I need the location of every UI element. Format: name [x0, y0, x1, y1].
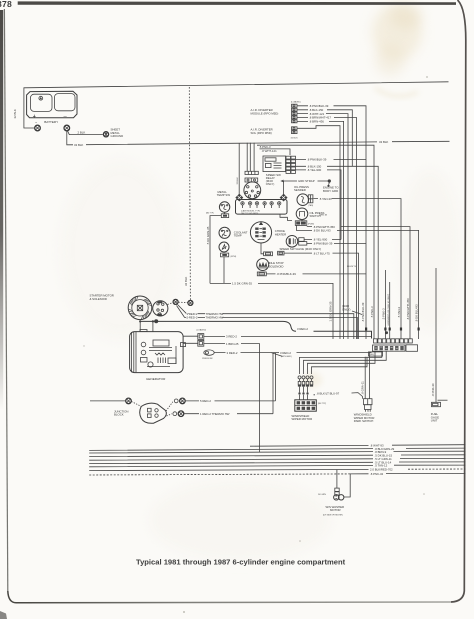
svg-text:.5 TAN-3: .5 TAN-3	[397, 306, 401, 318]
svg-text:.5 TAN-31: .5 TAN-31	[319, 197, 332, 201]
press sw oval	[202, 350, 214, 360]
engine block box	[236, 200, 328, 221]
starter solenoid	[153, 301, 168, 316]
svg-text:& SOLENOID: & SOLENOID	[90, 297, 107, 301]
svg-text:SENDER: SENDER	[294, 188, 306, 192]
lt blu connector	[278, 251, 284, 255]
svg-text:2 RED-2: 2 RED-2	[187, 316, 198, 320]
bus line .5 TAN-12	[89, 465, 465, 467]
svg-text:.8 PNK/BLK-39: .8 PNK/BLK-39	[307, 158, 327, 162]
svg-text:1 BRN-25: 1 BRN-25	[226, 342, 239, 346]
washer motor drop wires	[337, 470, 350, 497]
svg-text:SPEED SW VALVE (M4O ONLY): SPEED SW VALVE (M4O ONLY)	[280, 247, 322, 251]
junction terminals right upper + wire 5 RED-2	[174, 398, 275, 404]
svg-text:(M4 TYP): (M4 TYP)	[206, 212, 214, 214]
stain top-right	[372, 3, 422, 96]
thermo wires 1 RED-2 / 2 RED-2	[178, 305, 354, 340]
wire .8 DK BLU-93	[296, 225, 418, 339]
svg-text:(TAN): (TAN)	[309, 204, 314, 207]
bus line 2.0 BLK/RED-702 dashed	[89, 469, 368, 470]
main harness bus lines	[89, 444, 465, 476]
svg-text:ONLY): ONLY)	[342, 307, 351, 311]
svg-text:PARK SWITCH: PARK SWITCH	[354, 419, 374, 423]
generator output connectors	[181, 328, 207, 346]
washer motor	[323, 495, 344, 517]
svg-text:HEATER: HEATER	[275, 232, 286, 236]
metal temp sw	[217, 190, 231, 218]
wire gen 1 BRN-25	[204, 344, 260, 453]
svg-text:MOTOR: MOTOR	[330, 508, 341, 512]
top scan bar	[18, 1, 456, 5]
speed sw valve	[280, 236, 322, 251]
battery positive cable (to top long wire)	[24, 82, 449, 128]
wire .5 DK GRN-35	[210, 216, 221, 284]
distributor connector	[245, 178, 258, 182]
wire valve .8 YEL-900	[304, 239, 341, 241]
choke heater lead + inline box	[261, 243, 273, 256]
svg-text:.8 DK BLU-93: .8 DK BLU-93	[415, 304, 419, 322]
svg-text:BLOCK: BLOCK	[114, 413, 124, 417]
wiper park switch connector	[354, 399, 375, 423]
svg-text:DK GRN: DK GRN	[318, 494, 326, 496]
battery B1	[27, 91, 77, 124]
wire .8 PNK/BLK-39 (module pin1)	[297, 106, 366, 339]
svg-text:.8 PNK/BLK-39: .8 PNK/BLK-39	[277, 272, 297, 276]
svg-text:(LH SIDE OF ENG RH): (LH SIDE OF ENG RH)	[323, 515, 343, 517]
wire relay .8 YEL-900	[296, 170, 342, 240]
svg-text:.8 PNK-30: .8 PNK-30	[431, 383, 435, 397]
svg-text:(LOADED): (LOADED)	[291, 101, 301, 104]
bus line .5 DK BLU-15	[89, 455, 465, 457]
paper mottling	[60, 160, 460, 560]
generator leads	[140, 321, 153, 331]
svg-text:.8 GRA-11: .8 GRA-11	[361, 381, 365, 395]
svg-text:SOLENOID: SOLENOID	[269, 264, 284, 268]
wire 2 BLK to sheet metal ground	[68, 131, 103, 135]
wire dashed 32 BLK drop to starter	[189, 87, 190, 301]
junction block	[114, 402, 173, 424]
svg-text:GENERATOR: GENERATOR	[146, 377, 166, 381]
svg-text:.5 PNK-3: .5 PNK-3	[370, 306, 374, 318]
svg-text:1.5 DK GRN-35: 1.5 DK GRN-35	[232, 282, 252, 286]
frame bottom border	[8, 591, 451, 603]
svg-text:(W/ CYL HD GRD): (W/ CYL HD GRD)	[241, 213, 259, 215]
speed sw relay U1	[263, 156, 286, 186]
svg-text:3 RED-2: 3 RED-2	[297, 327, 308, 331]
svg-text:(M4): (M4)	[370, 354, 374, 356]
svg-text:THERMO HW: THERMO HW	[206, 316, 224, 320]
oil press switch	[296, 208, 324, 220]
svg-text:.8 YEL-900: .8 YEL-900	[307, 168, 322, 172]
bulkhead connector bank	[365, 328, 420, 357]
wire .8 WHT-121 to relay	[260, 149, 291, 155]
svg-text:.8 PNK/WHT-350: .8 PNK/WHT-350	[406, 298, 410, 320]
heavy cable 3 RED-2	[140, 321, 371, 338]
idle sol connector + wire .8 PNK/BLK-39	[257, 272, 366, 276]
svg-text:BLK/W 74: BLK/W 74	[347, 266, 357, 268]
wire valve .8 PNK/BLK-39	[307, 243, 366, 245]
washer motor connector	[318, 488, 339, 496]
junction block wire from left	[90, 400, 126, 402]
svg-text:(MTH): (MTH)	[231, 256, 237, 258]
frame right border	[451, 0, 466, 602]
svg-text:Typical 1981 through 1987 6-cy: Typical 1981 through 1987 6-cylinder eng…	[136, 557, 346, 566]
svg-text:(M4 TYP): (M4 TYP)	[318, 403, 326, 405]
wire .8 BRN-436 (module pin5)	[297, 121, 344, 339]
svg-text:WIPER MOTOR: WIPER MOTOR	[292, 417, 313, 421]
wire 32 BLK main bus	[67, 131, 450, 145]
svg-text:.5 PNK-3: .5 PNK-3	[382, 308, 386, 320]
coolant temp sw	[219, 227, 248, 238]
generator	[130, 330, 184, 382]
choke heater	[250, 222, 286, 243]
svg-text:32 BLK: 32 BLK	[184, 277, 188, 286]
svg-text:2 BLK: 2 BLK	[78, 131, 86, 135]
park switch verticals	[365, 352, 369, 399]
fusible link box	[295, 220, 314, 226]
distributor connector row	[237, 171, 258, 184]
wire .8 LT BLU-75	[284, 253, 359, 339]
svg-text:ONLY): ONLY)	[266, 182, 275, 186]
svg-text:.8 PNK-34: .8 PNK-34	[370, 472, 384, 476]
battery right terminal	[64, 125, 70, 131]
svg-text:PRESS SW: PRESS SW	[202, 358, 214, 360]
wire branch to junction label	[271, 353, 282, 357]
engine bolt left	[235, 194, 243, 202]
left scan bar	[0, 10, 3, 410]
svg-text:3 RED-2: 3 RED-2	[280, 351, 291, 355]
svg-text:3 RED-2: 3 RED-2	[227, 351, 238, 355]
engine bolt right	[280, 181, 288, 202]
svg-text:1.5 DK GRN-35: 1.5 DK GRN-35	[329, 301, 333, 321]
svg-text:378: 378	[0, 0, 12, 9]
windshield wiper motor connector stack	[292, 376, 327, 421]
wire sol to bus	[297, 126, 340, 339]
junction feed verticals	[273, 353, 276, 414]
bus line .8 BLK/GRN-29	[89, 448, 465, 450]
svg-text:32 BLK: 32 BLK	[13, 109, 17, 118]
bus line .8 PNK-34	[89, 474, 350, 475]
svg-text:.8 DK BLU-93: .8 DK BLU-93	[313, 229, 331, 233]
svg-text:GROUND: GROUND	[111, 134, 124, 138]
wire .8 BLK/LT BLU-97	[314, 393, 363, 399]
svg-text:TEMP: TEMP	[234, 234, 242, 238]
idle stop solenoid	[257, 259, 284, 271]
wire relay .8 BLK-150	[296, 166, 379, 339]
svg-text:(LOADED): (LOADED)	[197, 328, 207, 331]
relay connector pins	[286, 156, 296, 173]
bottom-left scan mark	[0, 611, 7, 619]
distributor	[244, 182, 261, 199]
stain small mid	[302, 372, 322, 388]
frame left border	[4, 9, 7, 591]
wire .8 WHT-121 (module pin3)	[297, 114, 348, 339]
wire gen 3 RED-2	[204, 335, 372, 337]
bus line .5 LT BLU-14	[89, 462, 465, 464]
starter B+ terminal dot	[154, 319, 158, 323]
svg-text:.8 LT BLU-75: .8 LT BLU-75	[313, 251, 330, 255]
svg-text:.8 PNK/BLK-39: .8 PNK/BLK-39	[313, 242, 333, 246]
oil press sender	[294, 185, 314, 207]
svg-text:(WITH M4O): (WITH M4O)	[281, 356, 292, 358]
junction terminals right lower + wire 1 RED-2 thermo	[173, 411, 273, 417]
svg-text:.8 PNK/BLK-39: .8 PNK/BLK-39	[361, 302, 365, 322]
svg-text:MODULE (RPO M5D): MODULE (RPO M5D)	[251, 112, 279, 116]
battery left terminal	[35, 125, 41, 131]
junction block terminal left	[126, 398, 132, 404]
A.I.R. diverter sol connector	[251, 127, 299, 140]
wiper harness from bank	[300, 351, 382, 374]
bus line .8 WHT-93	[250, 445, 466, 447]
svg-text:BATTERY: BATTERY	[44, 120, 58, 124]
svg-text:.8 BRN/WHT-415 (1985 1/2 ONLY): .8 BRN/WHT-415 (1985 1/2 ONLY)	[388, 294, 390, 326]
distributor feed wires	[239, 143, 254, 195]
starter motor	[128, 296, 152, 320]
bus line .8 BRN-9	[89, 451, 465, 453]
wire .8 PNK/WHT-350	[307, 227, 410, 339]
wire 1.5 DK GRN-35	[210, 257, 333, 339]
svg-text:1 RED-2 THERMO HW: 1 RED-2 THERMO HW	[200, 412, 230, 416]
wire relay .8 PNK/BLK-39	[296, 158, 367, 160]
svg-text:.8 WHT-121: .8 WHT-121	[262, 149, 278, 153]
fuel gauge feed	[435, 268, 437, 402]
svg-text:.5 DK GRN-35: .5 DK GRN-35	[206, 226, 210, 245]
bus line .5 LT GRN-11	[89, 458, 465, 460]
svg-text:.8 BRN-436: .8 BRN-436	[309, 120, 324, 124]
wire .8 BLK-150 (module pin2)	[297, 110, 352, 167]
svg-text:BODY GRD: BODY GRD	[323, 189, 338, 193]
svg-text:5 RED-2: 5 RED-2	[200, 399, 211, 403]
svg-text:GRD STRAP: GRD STRAP	[298, 179, 315, 183]
temp sender lower	[219, 242, 236, 258]
sheet metal ground G1	[103, 128, 123, 138]
svg-text:3 RED-2: 3 RED-2	[226, 335, 237, 339]
svg-text:.8 BLK/LT BLU-97: .8 BLK/LT BLU-97	[316, 391, 339, 395]
grd strap	[280, 179, 331, 187]
svg-text:32 BLK: 32 BLK	[237, 177, 239, 185]
svg-text:32 BLK: 32 BLK	[74, 143, 83, 147]
wire .5 PNK-3	[257, 145, 374, 339]
engine to body grd label	[323, 186, 339, 193]
svg-text:UNIT: UNIT	[431, 419, 438, 423]
svg-text:SOL (RPO M5D): SOL (RPO M5D)	[251, 131, 272, 135]
wire .5 TAN-31	[313, 199, 401, 339]
svg-text:TEMP SW: TEMP SW	[217, 193, 231, 197]
A.I.R. diverter module connector	[251, 101, 301, 123]
wire 3 RED-2 lower	[214, 352, 371, 354]
fuel gauge unit	[431, 400, 448, 422]
svg-text:32 BLK: 32 BLK	[379, 140, 388, 144]
dust specks	[83, 76, 428, 613]
terminal on dashed 32 BLK	[178, 300, 193, 305]
solenoid terminal S	[168, 299, 179, 304]
svg-text:32 BLK: 32 BLK	[291, 137, 299, 139]
wire .8 BRN/WHT-417 (module pin4)	[297, 118, 357, 340]
svg-text:BRN 1B: BRN 1B	[320, 215, 328, 217]
